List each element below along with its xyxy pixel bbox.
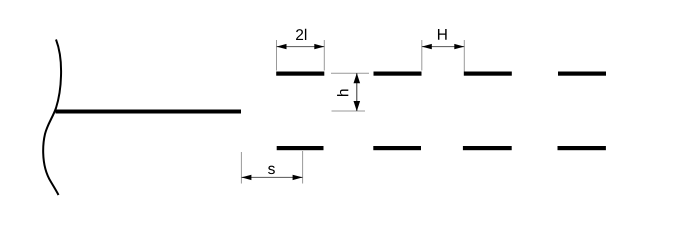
- dimension H arrowhead left: [422, 44, 432, 49]
- dimension 2l extension line right: [323, 40, 325, 71]
- dimension H line: [422, 46, 465, 48]
- dimension h arrowhead bottom: [354, 101, 361, 111]
- dimension H extension line left: [421, 40, 423, 71]
- dimension h top reference line: [331, 72, 369, 74]
- upper strip 2: [374, 72, 422, 76]
- upper strip 3: [464, 72, 512, 76]
- dimension h line: [356, 73, 358, 111]
- feed line: [56, 110, 242, 114]
- lower strip 4: [558, 146, 606, 150]
- dimension h bottom reference line: [332, 110, 366, 112]
- dimension s arrowhead right: [293, 175, 303, 180]
- label 2l: [296, 29, 306, 40]
- label s: [268, 166, 275, 174]
- upper strip 4: [558, 72, 606, 76]
- dimension H arrowhead right: [454, 44, 464, 49]
- dimension 2l arrowhead right: [314, 44, 324, 49]
- upper strip 1: [276, 72, 324, 76]
- dimension h arrowhead top: [354, 73, 361, 83]
- label H: [438, 29, 447, 40]
- dimension s extension line right: [302, 151, 304, 184]
- dimension 2l arrowhead left: [277, 44, 287, 49]
- dimension s line: [241, 176, 302, 178]
- dimension s arrowhead left: [241, 175, 251, 180]
- dimension s extension line left: [240, 152, 242, 184]
- lower strip 2: [373, 146, 421, 150]
- break curve (left boundary squiggle): [43, 40, 61, 196]
- dimension 2l line: [277, 46, 325, 48]
- lower strip 3: [463, 146, 512, 150]
- label h (rotated): [337, 90, 348, 97]
- dimension 2l extension line left: [276, 40, 278, 71]
- dimension H extension line right: [463, 40, 465, 72]
- lower strip 1: [277, 146, 324, 150]
